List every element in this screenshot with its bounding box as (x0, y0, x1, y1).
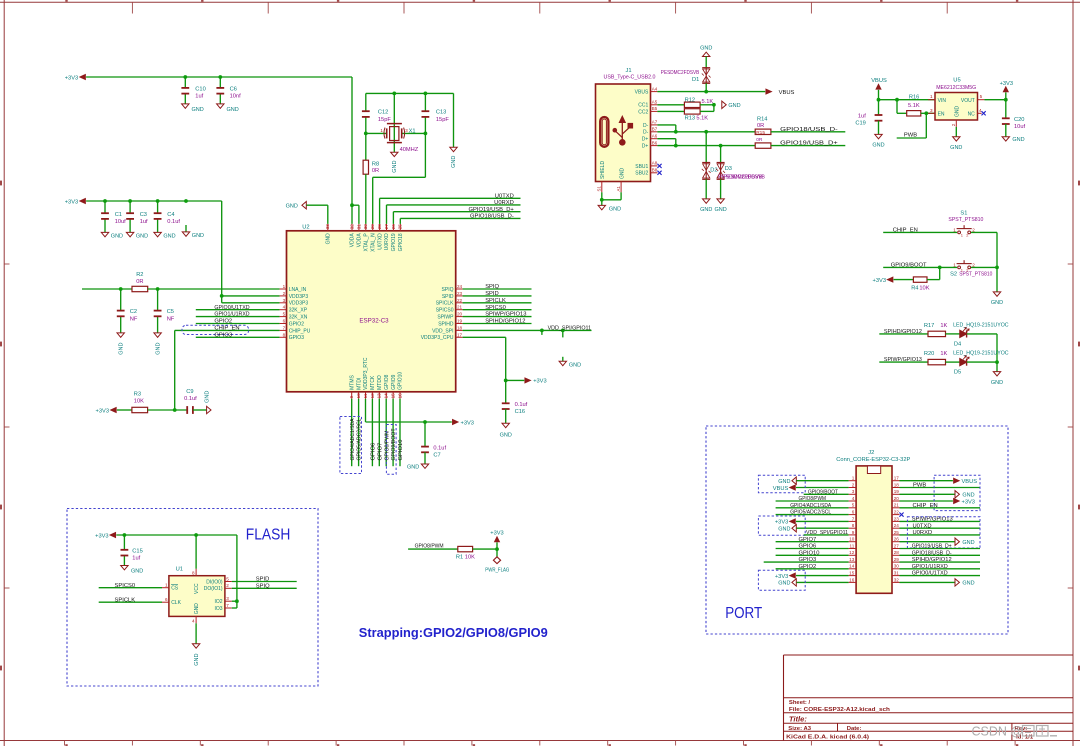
svg-text:23: 23 (894, 516, 900, 521)
wire (900, 541, 956, 543)
svg-text:SPID: SPID (485, 291, 499, 297)
net label SPIHD/GPIO12 (900, 557, 981, 563)
svg-text:EN: EN (938, 112, 945, 118)
net label SPIWP/GPIO13 (900, 517, 981, 523)
wire (900, 500, 953, 502)
svg-text:GND: GND (609, 206, 621, 212)
junction (350, 203, 354, 207)
ground (450, 147, 457, 168)
wire (195, 535, 197, 569)
svg-text:C5: C5 (167, 309, 174, 315)
svg-text:GPIO4/ADC1/SDA: GPIO4/ADC1/SDA (350, 418, 356, 460)
svg-text:SPICLK: SPICLK (485, 298, 506, 304)
wire (797, 480, 849, 482)
wire (232, 607, 237, 609)
title block id text (1016, 735, 1034, 741)
svg-text:CS: CS (171, 586, 179, 592)
junction (719, 144, 723, 148)
svg-text:C2: C2 (130, 309, 137, 315)
wire (967, 334, 997, 362)
svg-text:C19: C19 (855, 121, 865, 127)
capacitor C12 (362, 110, 391, 123)
svg-text:D2: D2 (710, 167, 717, 173)
wire (796, 520, 849, 522)
junction (1004, 98, 1008, 102)
svg-text:10: 10 (356, 393, 361, 399)
svg-text:GPIO9: GPIO9 (391, 374, 397, 390)
net label GPIO4/ADC1/SDA (776, 503, 849, 509)
power flag PWR_FLAG (485, 549, 509, 573)
svg-text:C13: C13 (436, 110, 446, 116)
svg-text:NF: NF (167, 316, 175, 322)
junction (194, 533, 198, 537)
ground (1002, 137, 1025, 143)
svg-text:GPIO2: GPIO2 (289, 321, 305, 327)
ground (700, 45, 712, 56)
svg-text:S1: S1 (960, 210, 967, 216)
svg-text:+3V3: +3V3 (1000, 81, 1013, 87)
svg-text:D+: D+ (642, 144, 649, 150)
junction (704, 90, 708, 94)
svg-text:SBU2: SBU2 (635, 171, 648, 177)
svg-text:MTCK: MTCK (370, 375, 376, 390)
svg-text:5.1K: 5.1K (696, 116, 708, 122)
dashed box FLASH section (67, 509, 318, 687)
wire (463, 329, 592, 331)
svg-text:File: CORE-ESP32-A12.kicad_sch: File: CORE-ESP32-A12.kicad_sch (789, 707, 890, 713)
resistor R20 (924, 351, 948, 365)
svg-text:10: 10 (849, 537, 855, 542)
net label GPIO7 (776, 537, 849, 543)
svg-text:28: 28 (377, 224, 382, 230)
wire (463, 316, 532, 318)
wire (878, 121, 880, 135)
net label GPIO10 (398, 440, 404, 461)
svg-text:0.1uf: 0.1uf (184, 396, 197, 402)
svg-text:S1: S1 (597, 186, 602, 192)
svg-text:CHIP_EN: CHIP_EN (214, 326, 239, 332)
net label U0TXD (900, 523, 981, 529)
wire (796, 575, 849, 577)
junction (995, 266, 999, 270)
svg-text:SPICS0: SPICS0 (436, 308, 454, 314)
dashed box (907, 517, 980, 548)
svg-text:U2: U2 (302, 225, 309, 231)
svg-text:1: 1 (283, 284, 286, 289)
svg-text:SPIQ: SPIQ (485, 284, 499, 290)
net label GPIO19/USB_D+ (469, 207, 515, 213)
svg-text:A8: A8 (652, 161, 658, 166)
wire (967, 361, 997, 363)
svg-text:D5: D5 (954, 370, 961, 376)
svg-text:2: 2 (972, 262, 975, 267)
wire (705, 132, 707, 163)
title block file text (789, 707, 890, 713)
wire (927, 267, 940, 279)
watermark CSDN (972, 725, 1058, 739)
wire (196, 336, 280, 338)
svg-text:U5: U5 (953, 78, 960, 84)
junction (424, 92, 428, 96)
svg-text:GND: GND (991, 380, 1003, 386)
regulator U5 ME6212C33M5G (928, 78, 984, 127)
no-connect (982, 111, 986, 115)
wire (148, 288, 280, 290)
power +3V3 (954, 499, 975, 506)
wire (221, 201, 223, 303)
svg-text:GND: GND (194, 603, 200, 615)
wire (971, 232, 997, 267)
svg-text:CHIP_PU: CHIP_PU (289, 328, 311, 334)
capacitor C19 (855, 114, 882, 127)
svg-text:3: 3 (930, 108, 933, 113)
net label SPIQ (485, 284, 499, 290)
net label GPIO5/ADC2/SCL (776, 510, 849, 516)
wire (399, 399, 401, 467)
svg-text:7: 7 (226, 603, 229, 608)
ground (991, 292, 1003, 306)
svg-text:C6: C6 (230, 87, 237, 93)
no-connect (657, 164, 661, 168)
net label GPIO8/PWM (776, 496, 849, 502)
wire (900, 480, 953, 482)
svg-text:R15: R15 (756, 130, 765, 136)
svg-text:18: 18 (457, 325, 463, 330)
capacitor C9 (184, 389, 197, 414)
dashed box (934, 475, 980, 510)
wire (894, 279, 914, 281)
wire (365, 174, 367, 224)
capacitor C2 (117, 309, 138, 322)
title block frame (784, 655, 1074, 741)
svg-text:27: 27 (384, 224, 389, 230)
svg-text:GPIO8: GPIO8 (384, 374, 390, 390)
wire (463, 337, 506, 380)
svg-text:20: 20 (457, 312, 463, 317)
net label SPICLK (115, 597, 136, 603)
wire (358, 399, 360, 467)
svg-text:2: 2 (283, 291, 286, 296)
svg-text:XTAL_N: XTAL_N (370, 233, 376, 252)
wire (657, 145, 755, 147)
svg-text:15pF: 15pF (436, 117, 449, 123)
svg-text:10uf: 10uf (115, 219, 126, 225)
svg-text:17: 17 (457, 332, 463, 337)
wire (175, 329, 280, 331)
no-connect (657, 171, 661, 175)
svg-text:6: 6 (852, 510, 855, 515)
svg-text:27: 27 (894, 543, 900, 548)
wire (232, 581, 297, 583)
svg-text:8: 8 (283, 332, 286, 337)
resistor R3 (132, 392, 148, 413)
svg-text:3: 3 (852, 489, 855, 494)
svg-text:U0RXD: U0RXD (494, 200, 514, 206)
svg-text:GPIO18/USB_D-: GPIO18/USB_D- (470, 214, 514, 220)
svg-text:VBUS: VBUS (635, 90, 649, 96)
resistor R14 labels (757, 116, 767, 129)
svg-text:IO3: IO3 (215, 606, 223, 612)
svg-text:1uf: 1uf (132, 556, 140, 562)
svg-text:GND: GND (962, 493, 974, 499)
svg-text:GND: GND (163, 233, 175, 239)
wire (700, 104, 714, 106)
svg-text:SPIQ: SPIQ (256, 583, 270, 589)
svg-text:1: 1 (165, 583, 168, 588)
net label GPIO8/PWM (384, 430, 390, 460)
svg-text:23: 23 (457, 291, 463, 296)
ground (778, 477, 796, 485)
junction (123, 533, 127, 537)
svg-text:2: 2 (226, 583, 229, 588)
wire (392, 399, 394, 467)
svg-text:ESP32-C3: ESP32-C3 (359, 317, 389, 324)
wire (365, 133, 367, 160)
svg-text:C16: C16 (515, 409, 525, 415)
svg-text:25: 25 (398, 224, 403, 230)
svg-text:CLK: CLK (171, 600, 181, 606)
svg-text:R4: R4 (911, 285, 918, 291)
wire (996, 362, 998, 372)
svg-text:1: 1 (953, 262, 956, 267)
junction (183, 75, 187, 79)
junction (128, 199, 132, 203)
wire (463, 309, 532, 311)
svg-text:B6: B6 (652, 140, 658, 145)
net label GPIO3 (214, 332, 232, 338)
wire (393, 93, 395, 152)
power VBUS (954, 478, 978, 485)
title block size text (788, 726, 811, 732)
wire (116, 534, 237, 536)
svg-text:SPID: SPID (442, 294, 454, 300)
wire (900, 581, 956, 583)
wire (705, 179, 707, 199)
wire (424, 452, 426, 464)
svg-text:D3: D3 (725, 166, 732, 172)
diode D2 PESDMC2FDSVB (702, 163, 718, 180)
net label GPIO9/BOOT (804, 489, 849, 495)
svg-text:GPIO19/USB_D+: GPIO19/USB_D+ (780, 141, 838, 147)
ground (101, 232, 123, 239)
svg-text:PORT: PORT (725, 605, 762, 622)
svg-text:GPIO3: GPIO3 (289, 335, 305, 341)
net label CHIP_EN (900, 503, 981, 509)
svg-text:GPIO19: GPIO19 (391, 233, 397, 251)
ground (126, 232, 148, 239)
crystal X1 40MHZ (380, 124, 418, 154)
wire (385, 399, 387, 467)
wire (366, 399, 452, 422)
svg-text:CSDN @: CSDN @ (972, 725, 1024, 739)
capacitor C1 (101, 212, 126, 225)
wire (946, 361, 960, 363)
svg-text:Size: A3: Size: A3 (788, 726, 811, 732)
wire (148, 409, 188, 411)
net label GPIO4/ADC1/SDA (350, 418, 356, 460)
resistor R15 (755, 129, 771, 143)
svg-text:U1: U1 (176, 566, 183, 572)
capacitor C15 (121, 548, 143, 561)
svg-text:VBUS: VBUS (871, 78, 887, 84)
svg-text:GND: GND (962, 581, 974, 587)
net label SPIQ (256, 583, 270, 589)
wire (657, 139, 675, 146)
capacitor C13 (422, 110, 450, 123)
net label GPIO6 (776, 544, 849, 550)
wire (104, 201, 106, 232)
capacitor C7 (421, 445, 446, 458)
net label GPIO8/PWM (408, 544, 458, 550)
ground (700, 199, 712, 213)
ground (872, 134, 884, 148)
svg-text:GND: GND (500, 432, 512, 438)
wire (473, 548, 497, 550)
svg-text:32K_XN: 32K_XN (289, 315, 308, 321)
svg-text:Date:: Date: (847, 726, 862, 732)
svg-text:10K: 10K (134, 399, 144, 405)
svg-text:VDD3P3: VDD3P3 (289, 301, 309, 307)
dashed box PORT section (706, 426, 1008, 634)
wire (120, 289, 122, 333)
junction (218, 75, 222, 79)
power +3V3 (490, 531, 503, 550)
net label SPIHD/GPIO12 (485, 319, 525, 325)
svg-text:1: 1 (953, 227, 956, 232)
svg-text:A1: A1 (616, 186, 621, 192)
svg-text:VDDA: VDDA (357, 233, 363, 248)
wire (86, 76, 352, 78)
svg-text:GPIO10: GPIO10 (398, 372, 404, 390)
svg-text:GND: GND (227, 107, 239, 113)
title block sheet text (789, 700, 811, 706)
wire (955, 127, 957, 137)
wire (184, 77, 186, 104)
svg-text:4: 4 (283, 305, 286, 310)
svg-text:R12: R12 (685, 98, 695, 104)
svg-text:U0TXD: U0TXD (495, 193, 514, 199)
junction (504, 379, 508, 383)
wire (946, 333, 960, 335)
junction (392, 92, 396, 96)
svg-text:R2: R2 (136, 272, 143, 278)
svg-text:D4: D4 (954, 342, 961, 348)
svg-text:USB_Type-C_USB2.0: USB_Type-C_USB2.0 (604, 74, 656, 80)
net label SPICLK (485, 298, 506, 304)
svg-text:0.1uf: 0.1uf (433, 445, 446, 451)
svg-text:9: 9 (349, 395, 354, 398)
wire (86, 200, 222, 202)
svg-text:SHIELD: SHIELD (600, 161, 606, 179)
svg-text:Strapping:GPIO2/GPIO8/GPIO9: Strapping:GPIO2/GPIO8/GPIO9 (359, 625, 548, 640)
note Strapping (359, 625, 548, 640)
resistor R16 (907, 94, 921, 116)
dashed box SDA/SCL (340, 417, 362, 474)
net label SPIHD/GPIO12 (879, 329, 928, 335)
svg-text:VCC: VCC (194, 583, 200, 594)
svg-text:LED_HQ19-2151UYOC: LED_HQ19-2151UYOC (953, 351, 1009, 357)
junction (995, 360, 999, 364)
svg-text:XTAL_P: XTAL_P (364, 233, 370, 252)
diode D4 LED_HQ19-2151UYOC (953, 322, 1009, 347)
svg-text:10nf: 10nf (230, 93, 241, 99)
note PORT (725, 605, 762, 622)
svg-text:GND: GND (392, 161, 398, 173)
svg-text:GPIO18: GPIO18 (398, 233, 404, 251)
net label PWB (900, 483, 981, 489)
svg-text:+3V3: +3V3 (96, 408, 109, 414)
switch S1 SPST_PTS810 (948, 210, 983, 237)
svg-text:R13: R13 (685, 116, 695, 122)
wire (366, 92, 454, 94)
svg-text:10K: 10K (465, 555, 475, 561)
resistor R2 (132, 272, 148, 292)
power +3V3 (top rail) (65, 75, 86, 82)
ground (182, 104, 204, 113)
wire (601, 192, 603, 205)
net label VDD_SPI/GPIO11 (548, 326, 592, 332)
svg-text:GPIO7: GPIO7 (377, 443, 383, 461)
wire (195, 623, 197, 644)
ground (205, 391, 212, 414)
svg-text:24: 24 (894, 523, 900, 528)
power +3V3 (775, 519, 795, 526)
svg-text:SBU1: SBU1 (635, 164, 648, 170)
svg-text:+3V3: +3V3 (962, 499, 975, 505)
svg-text:4: 4 (192, 619, 195, 624)
wire (222, 302, 280, 304)
svg-text:13: 13 (377, 393, 382, 399)
ground (286, 202, 307, 210)
ground (991, 372, 1003, 386)
wire (984, 99, 1005, 101)
wire (366, 132, 387, 134)
junction (877, 98, 881, 102)
junction (220, 294, 224, 298)
dashed box GPIO9/BOOT (386, 425, 396, 475)
wire (705, 83, 707, 91)
wire (797, 527, 849, 529)
net label SPICS0 (115, 583, 136, 589)
wire (996, 267, 998, 292)
junction (561, 329, 565, 338)
svg-text:GND: GND (111, 233, 123, 239)
svg-text:5: 5 (852, 503, 855, 508)
net label GPIO19/USB_D+ (780, 141, 838, 147)
net label SPID (256, 577, 270, 583)
svg-text:GND: GND (119, 343, 125, 355)
net label GPIO6 (371, 443, 377, 461)
svg-text:GND: GND (192, 233, 204, 239)
wire (463, 295, 532, 297)
svg-text:C7: C7 (433, 452, 440, 458)
wire (373, 133, 426, 224)
svg-text:GPIO18/USB_D-: GPIO18/USB_D- (780, 127, 838, 133)
power VBUS (871, 78, 887, 89)
wire (771, 145, 845, 147)
junction (704, 130, 708, 134)
wire (797, 581, 849, 583)
resistor R17 (924, 323, 948, 337)
svg-text:22: 22 (457, 298, 463, 303)
ground (217, 104, 239, 113)
wire (463, 323, 532, 325)
svg-text:GND: GND (962, 540, 974, 546)
svg-text:19: 19 (457, 319, 463, 324)
wire (393, 212, 520, 224)
power +3V3 (1000, 81, 1013, 92)
svg-text:+3V3: +3V3 (873, 278, 886, 284)
